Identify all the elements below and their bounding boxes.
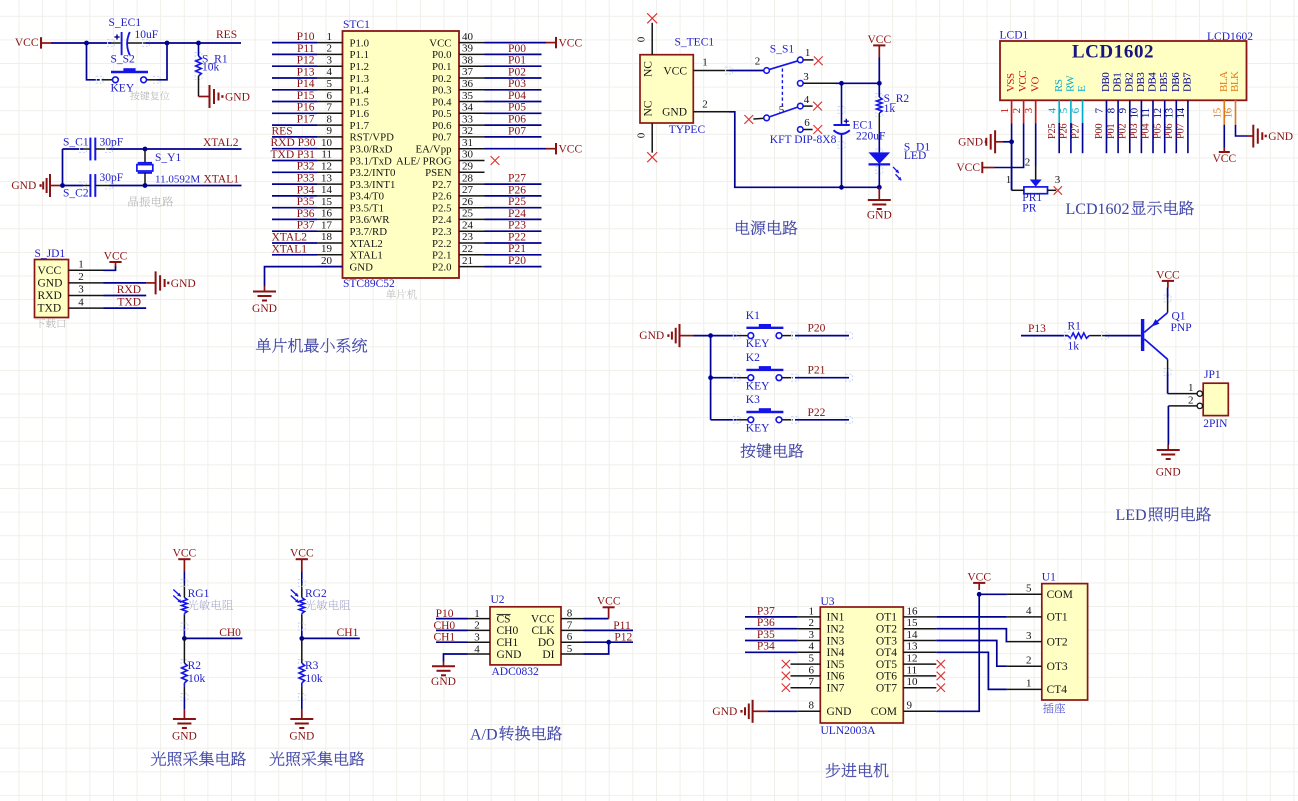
svg-text:P05: P05	[1152, 124, 1163, 139]
svg-text:1: 1	[1188, 382, 1194, 394]
svg-text:2: 2	[1025, 157, 1031, 169]
svg-text:CH1: CH1	[337, 627, 359, 639]
svg-text:OT2: OT2	[1047, 636, 1068, 648]
svg-text:5: 5	[779, 104, 785, 116]
wire pin20 GND	[265, 267, 343, 286]
svg-text:OT4: OT4	[876, 647, 897, 659]
svg-text:GND: GND	[38, 278, 63, 290]
pin 26 P2.5 (right)	[459, 207, 485, 209]
svg-text:CT4: CT4	[1047, 684, 1068, 696]
no-connect X pin10 U3	[937, 684, 945, 692]
wire pin5 DI to DO	[584, 642, 609, 654]
svg-text:RES: RES	[216, 29, 237, 41]
title bu jin dian ji	[826, 763, 889, 778]
pin 3 P1.2 (left)	[317, 65, 343, 67]
wire VCC to RG1	[183, 572, 185, 584]
wire pin 34	[485, 112, 542, 114]
svg-text:VCC: VCC	[663, 65, 687, 77]
pin 6 DO of U2	[561, 641, 584, 643]
wire P35	[745, 640, 798, 642]
pin 10 P3.0/RxD (left)	[317, 148, 343, 150]
svg-text:6: 6	[327, 90, 333, 102]
svg-text:VCC: VCC	[290, 548, 314, 560]
pin 4 P1.3 (left)	[317, 77, 343, 79]
svg-text:P06: P06	[1164, 124, 1175, 139]
wire to pin 16	[272, 218, 317, 220]
wire pin 25	[485, 218, 542, 220]
transistor Q1 PNP	[1141, 319, 1144, 351]
svg-text:6: 6	[804, 117, 810, 129]
svg-text:NC: NC	[643, 61, 655, 77]
svg-text:VSS: VSS	[1005, 73, 1017, 92]
svg-text:P20: P20	[808, 323, 826, 335]
svg-text:OT3: OT3	[1047, 661, 1068, 673]
svg-text:XTAL1: XTAL1	[350, 250, 383, 262]
wire LED to rail	[878, 164, 880, 187]
no-connect X pin11 U3	[937, 672, 945, 680]
svg-text:P13: P13	[297, 66, 315, 78]
svg-text:DB7: DB7	[1182, 72, 1194, 92]
wire R2 to GND	[183, 687, 185, 697]
svg-text:LED: LED	[1116, 507, 1147, 524]
svg-text:RXD: RXD	[117, 284, 141, 296]
svg-text:3: 3	[327, 54, 333, 66]
svg-text:21: 21	[462, 255, 473, 267]
svg-text:10uF: 10uF	[135, 29, 159, 41]
node at K2	[708, 375, 713, 380]
wire to pin 15	[272, 207, 317, 209]
wire P34	[745, 651, 798, 653]
pin 13 OT4 of U3	[903, 651, 936, 653]
wire pin8	[1117, 100, 1119, 153]
wire COM to VCC	[936, 594, 979, 711]
node at crystal top	[143, 147, 148, 152]
svg-text:S_S2: S_S2	[111, 54, 136, 66]
no-connect X pin12 U3	[937, 660, 945, 668]
svg-text:24: 24	[462, 219, 474, 231]
wire JP1 pin2 to GND	[1168, 405, 1197, 407]
pin 6 IN6 of U3	[791, 675, 821, 677]
svg-text:DB1: DB1	[1112, 73, 1124, 92]
pin 2 OT3 of U1	[1007, 665, 1042, 667]
wire to pin 3	[272, 65, 317, 67]
capacitor EC1 220uF electrolytic	[841, 83, 843, 125]
svg-text:IN2: IN2	[827, 624, 845, 636]
comment text guang min dian zu	[188, 600, 233, 610]
power port VCC (CH1)	[296, 558, 308, 560]
svg-text:3: 3	[78, 284, 84, 296]
svg-text:CH0: CH0	[497, 625, 519, 637]
svg-text:P12: P12	[297, 55, 315, 67]
snap marks (power)	[726, 67, 733, 74]
wire pin2 of TYPEC down to rail	[693, 111, 729, 113]
svg-text:P2.7: P2.7	[432, 179, 452, 191]
svg-text:A/D: A/D	[470, 726, 498, 743]
ground GND (MCU)	[264, 286, 266, 292]
svg-text:P14: P14	[297, 78, 315, 90]
pin 16 P3.6/WR (left)	[317, 218, 343, 220]
pin 8 GND of U3	[768, 710, 798, 712]
svg-text:P23: P23	[508, 220, 526, 232]
svg-text:14: 14	[907, 629, 919, 641]
svg-text:P2.2: P2.2	[432, 238, 452, 250]
svg-text:U1: U1	[1042, 572, 1056, 584]
ground GND (LED circuit)	[1167, 445, 1169, 451]
wire pin8 to VCC	[584, 618, 609, 620]
pin 34 P0.5 (right)	[459, 112, 485, 114]
svg-text:P0.4: P0.4	[432, 96, 452, 108]
svg-text:DB0: DB0	[1100, 72, 1112, 92]
svg-text:30pF: 30pF	[100, 172, 124, 184]
svg-text:P1.5: P1.5	[350, 96, 370, 108]
wire pin 24	[485, 230, 542, 232]
wire pin16 BLK to GND	[1235, 100, 1237, 124]
wire pin 35	[485, 101, 542, 103]
pin 7 CLK of U2	[561, 629, 584, 631]
wire VCC node to U1 pin5	[979, 593, 1007, 595]
pin 2 IN2 of U3	[798, 628, 821, 630]
pin 16 OT1 of U3	[903, 616, 936, 618]
wire RG2 to node	[301, 615, 303, 627]
wire node to CH0 label	[184, 637, 242, 639]
pin 28 P2.7 (right)	[459, 183, 485, 185]
svg-text:CS: CS	[497, 613, 511, 625]
svg-text:P27: P27	[1070, 124, 1081, 139]
node at C1/C2 left leg	[60, 183, 65, 188]
pin 9 COM of U3	[903, 710, 936, 712]
wire pin 38	[485, 65, 542, 67]
wire right leg of switch	[157, 43, 167, 80]
node junction at S_R1	[196, 41, 201, 46]
svg-text:22: 22	[462, 243, 473, 255]
wire XTAL1 row	[109, 185, 242, 187]
svg-text:P3.1/TxD: P3.1/TxD	[350, 155, 392, 167]
svg-text:P24: P24	[508, 208, 526, 220]
svg-text:ADC0832: ADC0832	[492, 666, 540, 678]
snap marks (reset)	[108, 40, 115, 47]
pin 11 OT6 of U3	[903, 675, 936, 677]
svg-text:OT5: OT5	[876, 659, 897, 671]
svg-text:PR: PR	[1022, 202, 1036, 214]
pin 4 GND of U2	[468, 653, 491, 655]
svg-text:XTAL1: XTAL1	[272, 243, 308, 255]
power port VCC (backlight)	[1223, 148, 1225, 153]
pin 30 ALE/ PROG (right)	[459, 160, 485, 162]
svg-text:P2.5: P2.5	[432, 203, 452, 215]
title an jian dian lu	[741, 443, 804, 458]
svg-text:TXD P31: TXD P31	[271, 149, 316, 161]
svg-text:2: 2	[809, 617, 815, 629]
node CH1	[299, 636, 304, 641]
power port VCC (LED circuit)	[1162, 280, 1174, 282]
pin 3 OT2 of U1	[1007, 641, 1042, 643]
pin 25 P2.4 (right)	[459, 218, 485, 220]
svg-text:23: 23	[462, 231, 474, 243]
svg-text:S_S1: S_S1	[770, 44, 795, 56]
snap marks (crystal)	[80, 146, 87, 153]
svg-text:RS: RS	[1053, 79, 1065, 92]
svg-text:KEY: KEY	[746, 338, 770, 350]
svg-text:RES: RES	[272, 125, 293, 137]
svg-text:40: 40	[462, 31, 474, 43]
pin 10 OT7 of U3	[903, 687, 936, 689]
wire R1 to base	[1105, 335, 1141, 337]
pin 3 CH1 of U2	[468, 641, 491, 643]
svg-text:P02: P02	[508, 66, 526, 78]
wire pin10	[1140, 100, 1142, 153]
pin 17 P3.7/RD (left)	[317, 230, 343, 232]
svg-text:VCC: VCC	[1017, 71, 1029, 92]
svg-text:8: 8	[567, 608, 573, 620]
switch K2 KEY	[711, 377, 737, 379]
pin 7 P1.6 (left)	[317, 112, 343, 114]
pin 5 IN5 of U3	[791, 663, 821, 665]
svg-text:20: 20	[321, 255, 333, 267]
ground GND (reset)	[198, 95, 200, 97]
node GND-K1	[708, 333, 713, 338]
svg-text:XTAL2: XTAL2	[203, 137, 239, 149]
pin 5 COM of U1	[1007, 593, 1042, 595]
svg-text:P35: P35	[757, 629, 775, 641]
svg-text:16: 16	[907, 605, 919, 617]
svg-text:VCC: VCC	[559, 37, 583, 49]
node rail-EC1	[839, 185, 844, 190]
svg-text:P36: P36	[757, 617, 775, 629]
svg-text:P2.3: P2.3	[432, 226, 452, 238]
wire pin7 CLK to P11	[584, 629, 634, 631]
wire pin3 RXD	[104, 295, 147, 297]
pin 13 P3.3/INT1 (left)	[317, 183, 343, 185]
svg-text:1: 1	[327, 31, 333, 43]
wire to pin 8	[272, 124, 317, 126]
svg-text:3: 3	[803, 71, 809, 83]
svg-text:RST/VPD: RST/VPD	[350, 132, 395, 144]
svg-text:COM: COM	[1047, 589, 1073, 601]
no-connect X pin1 S_S1	[814, 56, 823, 65]
svg-text:GND: GND	[11, 180, 36, 192]
svg-text:P04: P04	[508, 90, 526, 102]
wire pin1 VSS	[1011, 100, 1013, 123]
svg-text:P22: P22	[508, 231, 526, 243]
svg-text:10: 10	[907, 676, 919, 688]
svg-text:P2.4: P2.4	[432, 214, 452, 226]
pin 21 P2.0 (right)	[459, 266, 485, 268]
svg-text:35: 35	[462, 90, 474, 102]
ground GND (CH0)	[183, 710, 185, 719]
power port VCC (LCD left)	[981, 162, 983, 173]
svg-text:R3: R3	[305, 660, 319, 672]
svg-text:1: 1	[999, 108, 1011, 113]
svg-text:CLK: CLK	[532, 625, 556, 637]
svg-text:220uF: 220uF	[856, 131, 885, 143]
wire to pin 7	[272, 112, 317, 114]
wire VCC down	[878, 58, 880, 98]
svg-text:GND: GND	[172, 731, 197, 743]
svg-text:P2.0: P2.0	[432, 261, 452, 273]
svg-text:10k: 10k	[188, 673, 206, 685]
svg-text:K1: K1	[746, 310, 760, 322]
svg-text:NC: NC	[643, 100, 655, 116]
wire pin13	[1175, 100, 1177, 153]
comment text an jian fu wei	[130, 91, 169, 100]
svg-text:PSEN: PSEN	[425, 167, 452, 179]
svg-text:OT1: OT1	[1047, 612, 1068, 624]
node at EC1 top	[839, 81, 844, 86]
ground GND (CH1)	[301, 710, 303, 719]
pin 1 of TYPEC	[693, 70, 729, 72]
svg-text:P1.0: P1.0	[350, 37, 370, 49]
wire VCC rail to RES	[51, 42, 111, 44]
svg-text:36: 36	[462, 78, 474, 90]
power port VCC (pin40)	[546, 42, 556, 44]
wire pin4 to GND	[444, 654, 468, 662]
node at S_R2 bottom	[877, 81, 882, 86]
crystal S_Y1 11.0592M	[144, 149, 146, 163]
resistor R2 10k	[183, 638, 185, 663]
svg-text:11: 11	[321, 149, 332, 161]
wire to pin 17	[272, 230, 317, 232]
svg-text:1k: 1k	[1068, 341, 1080, 353]
svg-text:P07: P07	[1176, 124, 1187, 139]
svg-text:2: 2	[78, 271, 84, 283]
svg-text:XTAL2: XTAL2	[350, 238, 383, 250]
pin 14 P3.4/T0 (left)	[317, 195, 343, 197]
svg-text:GND: GND	[497, 649, 522, 661]
svg-text:GND: GND	[662, 107, 687, 119]
svg-text:2: 2	[702, 99, 708, 111]
svg-text:P1.2: P1.2	[350, 61, 370, 73]
svg-text:VCC: VCC	[1156, 269, 1180, 281]
wire pin6 DO to P12	[584, 641, 634, 643]
svg-text:P32: P32	[297, 161, 315, 173]
wire OT2 to U1 pin3	[936, 629, 1007, 642]
svg-text:P1.1: P1.1	[350, 49, 370, 61]
svg-text:27: 27	[462, 184, 474, 196]
svg-text:DB2: DB2	[1123, 73, 1135, 92]
svg-text:OT3: OT3	[876, 635, 897, 647]
pin 14 OT3 of U3	[903, 640, 936, 642]
no-connect X pin 6 U3	[782, 672, 790, 680]
svg-text:34: 34	[462, 102, 474, 114]
svg-text:2PIN: 2PIN	[1203, 418, 1228, 430]
svg-text:VO: VO	[1029, 77, 1041, 92]
wire pin14	[1187, 100, 1189, 153]
pin 5 P1.4 (left)	[317, 89, 343, 91]
svg-text:GND: GND	[958, 136, 983, 148]
svg-text:GND: GND	[225, 91, 250, 103]
svg-text:JP1: JP1	[1204, 369, 1221, 381]
svg-text:RG1: RG1	[188, 588, 210, 600]
svg-text:VCC: VCC	[559, 143, 583, 155]
switch K1 KEY	[711, 335, 737, 337]
wire to pin 18	[272, 242, 317, 244]
pin 4 IN4 of U3	[798, 651, 821, 653]
wire pin1 P10	[436, 618, 468, 620]
power port VCC (CH0)	[178, 558, 190, 560]
svg-text:15: 15	[321, 196, 333, 208]
wire XTAL2 row	[63, 148, 84, 150]
svg-text:12: 12	[907, 653, 918, 665]
svg-text:RW: RW	[1065, 75, 1077, 92]
svg-text:P03: P03	[1129, 124, 1140, 139]
svg-text:P1.3: P1.3	[350, 73, 370, 85]
svg-text:1k: 1k	[884, 103, 896, 115]
wire collector to JP1	[1167, 359, 1169, 372]
wire pin 32	[485, 136, 542, 138]
svg-text:31: 31	[462, 137, 473, 149]
svg-text:DB4: DB4	[1147, 72, 1159, 92]
svg-text:1: 1	[78, 259, 84, 271]
wire to pin 5	[272, 89, 317, 91]
pin 4 OT1 of U1	[1007, 616, 1042, 618]
svg-text:P11: P11	[613, 620, 631, 632]
svg-text:P36: P36	[297, 208, 315, 220]
resistor R3 10k	[301, 638, 303, 663]
pin 12 P3.2/INT0 (left)	[317, 171, 343, 173]
power port VCC (pin31)	[546, 148, 556, 150]
svg-text:19: 19	[321, 243, 333, 255]
node rail-LED	[877, 185, 882, 190]
svg-text:GND: GND	[1156, 467, 1181, 479]
wire K2 to P21	[795, 377, 849, 379]
pin 1 CS of U2	[468, 618, 491, 620]
svg-text:13: 13	[907, 641, 919, 653]
svg-text:RXD: RXD	[38, 290, 62, 302]
svg-text:37: 37	[462, 66, 474, 78]
svg-text:VCC: VCC	[1212, 153, 1236, 165]
title dan pian ji zui xiao xi tong	[256, 338, 367, 353]
wire P37	[745, 616, 798, 618]
pin 18 XTAL2 (left)	[317, 242, 343, 244]
pin 0 top of TYPEC with no-connect X	[651, 23, 653, 55]
svg-text:15: 15	[1212, 107, 1224, 118]
wire left leg of switch	[87, 43, 100, 80]
no-connect X pin6 S_S1	[813, 125, 822, 134]
pin 12 OT5 of U3	[903, 663, 936, 665]
node CH0	[182, 636, 187, 641]
no-connect X pin4 S_S1	[813, 102, 822, 111]
pin 35 P0.4 (right)	[459, 101, 485, 103]
svg-text:TXD: TXD	[117, 297, 141, 309]
svg-text:P3.2/INT0: P3.2/INT0	[350, 167, 396, 179]
svg-text:P25: P25	[508, 196, 526, 208]
svg-text:R1: R1	[1068, 321, 1082, 333]
svg-text:COM: COM	[871, 706, 897, 718]
svg-text:9: 9	[327, 125, 333, 137]
svg-text:P26: P26	[1059, 124, 1070, 139]
svg-text:BLK: BLK	[1229, 71, 1241, 92]
node VCC-COM	[977, 592, 982, 597]
svg-text:GND: GND	[431, 676, 456, 688]
wire pin2 to GND	[104, 282, 147, 284]
svg-text:GND: GND	[712, 706, 737, 718]
title dian yuan dian lu	[736, 220, 797, 235]
svg-text:EA/Vpp: EA/Vpp	[416, 144, 452, 156]
wire pin 22	[485, 254, 542, 256]
svg-text:CH0: CH0	[433, 620, 455, 632]
wire pin12	[1164, 100, 1166, 153]
svg-text:2: 2	[1011, 108, 1023, 113]
svg-text:6: 6	[567, 631, 573, 643]
pin 9 RST/VPD (left)	[317, 136, 343, 138]
dashed link of switch	[781, 69, 783, 109]
pin 3 IN3 of U3	[798, 640, 821, 642]
wire to pin 13	[272, 183, 317, 185]
svg-text:2: 2	[474, 620, 480, 632]
svg-text:VCC: VCC	[531, 613, 555, 625]
pin 2 P1.1 (left)	[317, 53, 343, 55]
svg-text:P25: P25	[1047, 124, 1058, 139]
